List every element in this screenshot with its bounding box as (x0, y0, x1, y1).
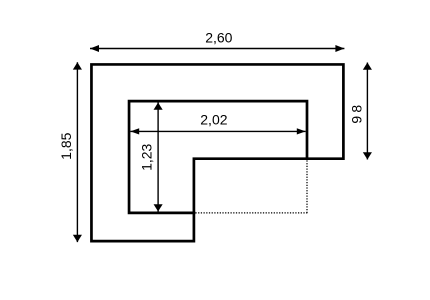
dimension 2,02 right arrowhead (297, 128, 306, 134)
inner rectangle visible solid edges (129, 101, 307, 213)
dimension 1,23 line (157, 102, 159, 211)
dimension 2,02 line (130, 130, 305, 132)
dimension 2,60 line (90, 48, 344, 50)
hidden edge dotted vertical (306, 160, 308, 213)
dimension 1,23 top arrowhead (154, 102, 163, 109)
outer outline of L-shaped part (91, 64, 343, 241)
hidden edge dotted horizontal (195, 212, 307, 214)
svg-text:1,85: 1,85 (58, 132, 74, 159)
svg-text:98: 98 (348, 102, 364, 124)
dimension 1,85 top arrowhead (73, 62, 82, 69)
svg-text:2,02: 2,02 (200, 112, 227, 128)
svg-text:2,60: 2,60 (205, 30, 232, 46)
dimension 1,85 bottom arrowhead (73, 235, 82, 242)
dimension 1,85 line (76, 62, 78, 242)
dimension 98 top arrowhead (363, 63, 372, 70)
dimension 98 line (366, 63, 368, 160)
dimension 1,23 bottom arrowhead (154, 204, 163, 211)
dimension 98 bottom arrowhead (363, 152, 372, 159)
dimension 2,02 left arrowhead (130, 128, 139, 134)
dimension 2,60 left arrowhead (90, 45, 99, 52)
dimension 2,60 right arrowhead (335, 45, 344, 52)
svg-text:1,23: 1,23 (138, 143, 154, 170)
